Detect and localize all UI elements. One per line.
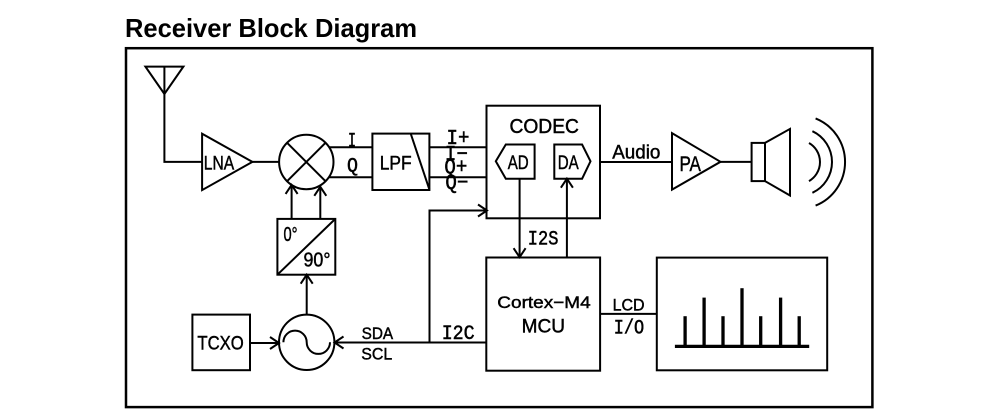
svg-text:I: I: [348, 130, 356, 153]
wire mixer I out: [329, 146, 372, 148]
svg-text:TCXO: TCXO: [197, 334, 243, 355]
svg-text:SCL: SCL: [361, 344, 392, 363]
svg-text:DA: DA: [558, 153, 579, 174]
wire MCU to LCD: [600, 313, 657, 315]
svg-text:SDA: SDA: [362, 324, 394, 343]
speaker LS1: [752, 129, 790, 196]
svg-text:AD: AD: [508, 153, 529, 174]
wire I2C bus MCU to osc: [336, 342, 486, 344]
amplifier LNA: [202, 134, 252, 190]
wire LNA to mixer: [252, 161, 280, 163]
sound waves: [809, 118, 845, 205]
TCXO box: [192, 315, 250, 371]
wire osc to phase shifter: [306, 277, 308, 315]
svg-text:0°: 0°: [284, 224, 298, 246]
svg-text:CODEC: CODEC: [509, 116, 579, 138]
svg-text:Receiver Block Diagram: Receiver Block Diagram: [125, 13, 417, 43]
antenna: [145, 67, 202, 162]
svg-text:MCU: MCU: [522, 315, 565, 337]
svg-text:Audio: Audio: [612, 143, 660, 164]
wire MCU to DA (I2S): [566, 181, 568, 258]
svg-text:LNA: LNA: [204, 154, 235, 175]
LCD display box: [657, 258, 827, 371]
wire AD to MCU (I2S): [519, 179, 521, 256]
wire phase to mixer LO Q: [319, 187, 321, 219]
svg-text:I2C: I2C: [442, 323, 475, 346]
svg-text:I2S: I2S: [528, 228, 559, 251]
wire CODEC to PA (Audio): [600, 161, 672, 163]
amplifier PA: [672, 133, 721, 190]
converter DA: [554, 145, 590, 179]
svg-text:LCD: LCD: [613, 296, 645, 315]
mixer: [279, 135, 333, 189]
wire mixer Q out: [329, 176, 372, 178]
svg-text:Q−: Q−: [445, 173, 468, 196]
wire LPF to CODEC Q pair: [429, 176, 486, 178]
wire phase to mixer LO I: [291, 185, 293, 219]
filter LPF: [372, 134, 429, 190]
CODEC U1: [487, 106, 601, 219]
svg-text:PA: PA: [679, 153, 701, 176]
phase shifter 0/90: [277, 219, 335, 275]
svg-text:LPF: LPF: [380, 154, 412, 175]
svg-text:I/O: I/O: [614, 318, 644, 341]
oscillator X1: [279, 315, 334, 370]
svg-text:Q: Q: [347, 156, 358, 179]
wire I2C branch to CODEC: [430, 211, 486, 343]
wire PA to speaker: [721, 161, 752, 163]
border frame: [126, 48, 872, 407]
LCD waveform: [675, 288, 809, 346]
MCU U2: [486, 258, 600, 371]
wire TCXO to osc: [250, 342, 278, 344]
svg-text:90°: 90°: [304, 250, 331, 272]
svg-text:Cortex−M4: Cortex−M4: [497, 293, 590, 312]
converter AD: [496, 145, 535, 179]
wire LPF to CODEC I pair: [429, 146, 486, 148]
